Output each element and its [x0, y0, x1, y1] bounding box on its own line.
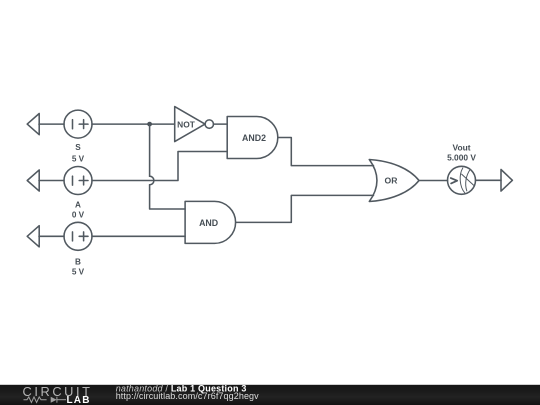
- wire: [476, 179, 502, 181]
- wire: [92, 123, 175, 125]
- wire: [92, 152, 227, 181]
- wire: [39, 235, 64, 237]
- not-gate U1: [175, 107, 214, 142]
- svg-text:5.000 V: 5.000 V: [447, 153, 476, 163]
- svg-text:http://circuitlab.com/c7r6f7qg: http://circuitlab.com/c7r6f7qg2hegv: [116, 391, 259, 401]
- wire: [214, 123, 228, 125]
- input terminal T_S: [27, 114, 39, 135]
- svg-text:NOT: NOT: [177, 119, 196, 129]
- wire: [150, 185, 186, 209]
- and-gate AND: [185, 201, 236, 243]
- or-gate OR: [369, 160, 419, 202]
- wire: [149, 124, 151, 176]
- wire: [278, 138, 374, 166]
- logo symbol resistor+diode: [24, 397, 67, 403]
- svg-text:B: B: [75, 258, 81, 267]
- voltage source B: [64, 222, 92, 250]
- footer bar: [0, 385, 540, 405]
- svg-text:AND: AND: [199, 218, 218, 228]
- voltmeter Vout: [448, 166, 476, 194]
- wire: [39, 123, 64, 125]
- svg-text:Vout: Vout: [453, 142, 471, 152]
- svg-text:LAB: LAB: [67, 395, 91, 405]
- wire: [419, 180, 448, 182]
- svg-text:5 V: 5 V: [72, 154, 85, 163]
- output terminal T_OUT: [501, 170, 512, 192]
- svg-text:AND2: AND2: [242, 133, 266, 143]
- svg-text:OR: OR: [385, 176, 399, 186]
- voltage source S: [64, 110, 92, 138]
- wire hop: [150, 176, 154, 185]
- input terminal T_B: [27, 226, 39, 247]
- svg-text:S: S: [75, 143, 81, 152]
- wire: [92, 235, 185, 237]
- svg-text:A: A: [75, 200, 81, 209]
- svg-text:0 V: 0 V: [72, 210, 85, 219]
- wire: [236, 195, 374, 222]
- input terminal T_A: [27, 170, 39, 191]
- voltage source A: [64, 167, 92, 195]
- and-gate AND2: [227, 117, 278, 159]
- junction: [147, 122, 152, 127]
- svg-text:5 V: 5 V: [72, 268, 85, 277]
- wire: [39, 180, 64, 182]
